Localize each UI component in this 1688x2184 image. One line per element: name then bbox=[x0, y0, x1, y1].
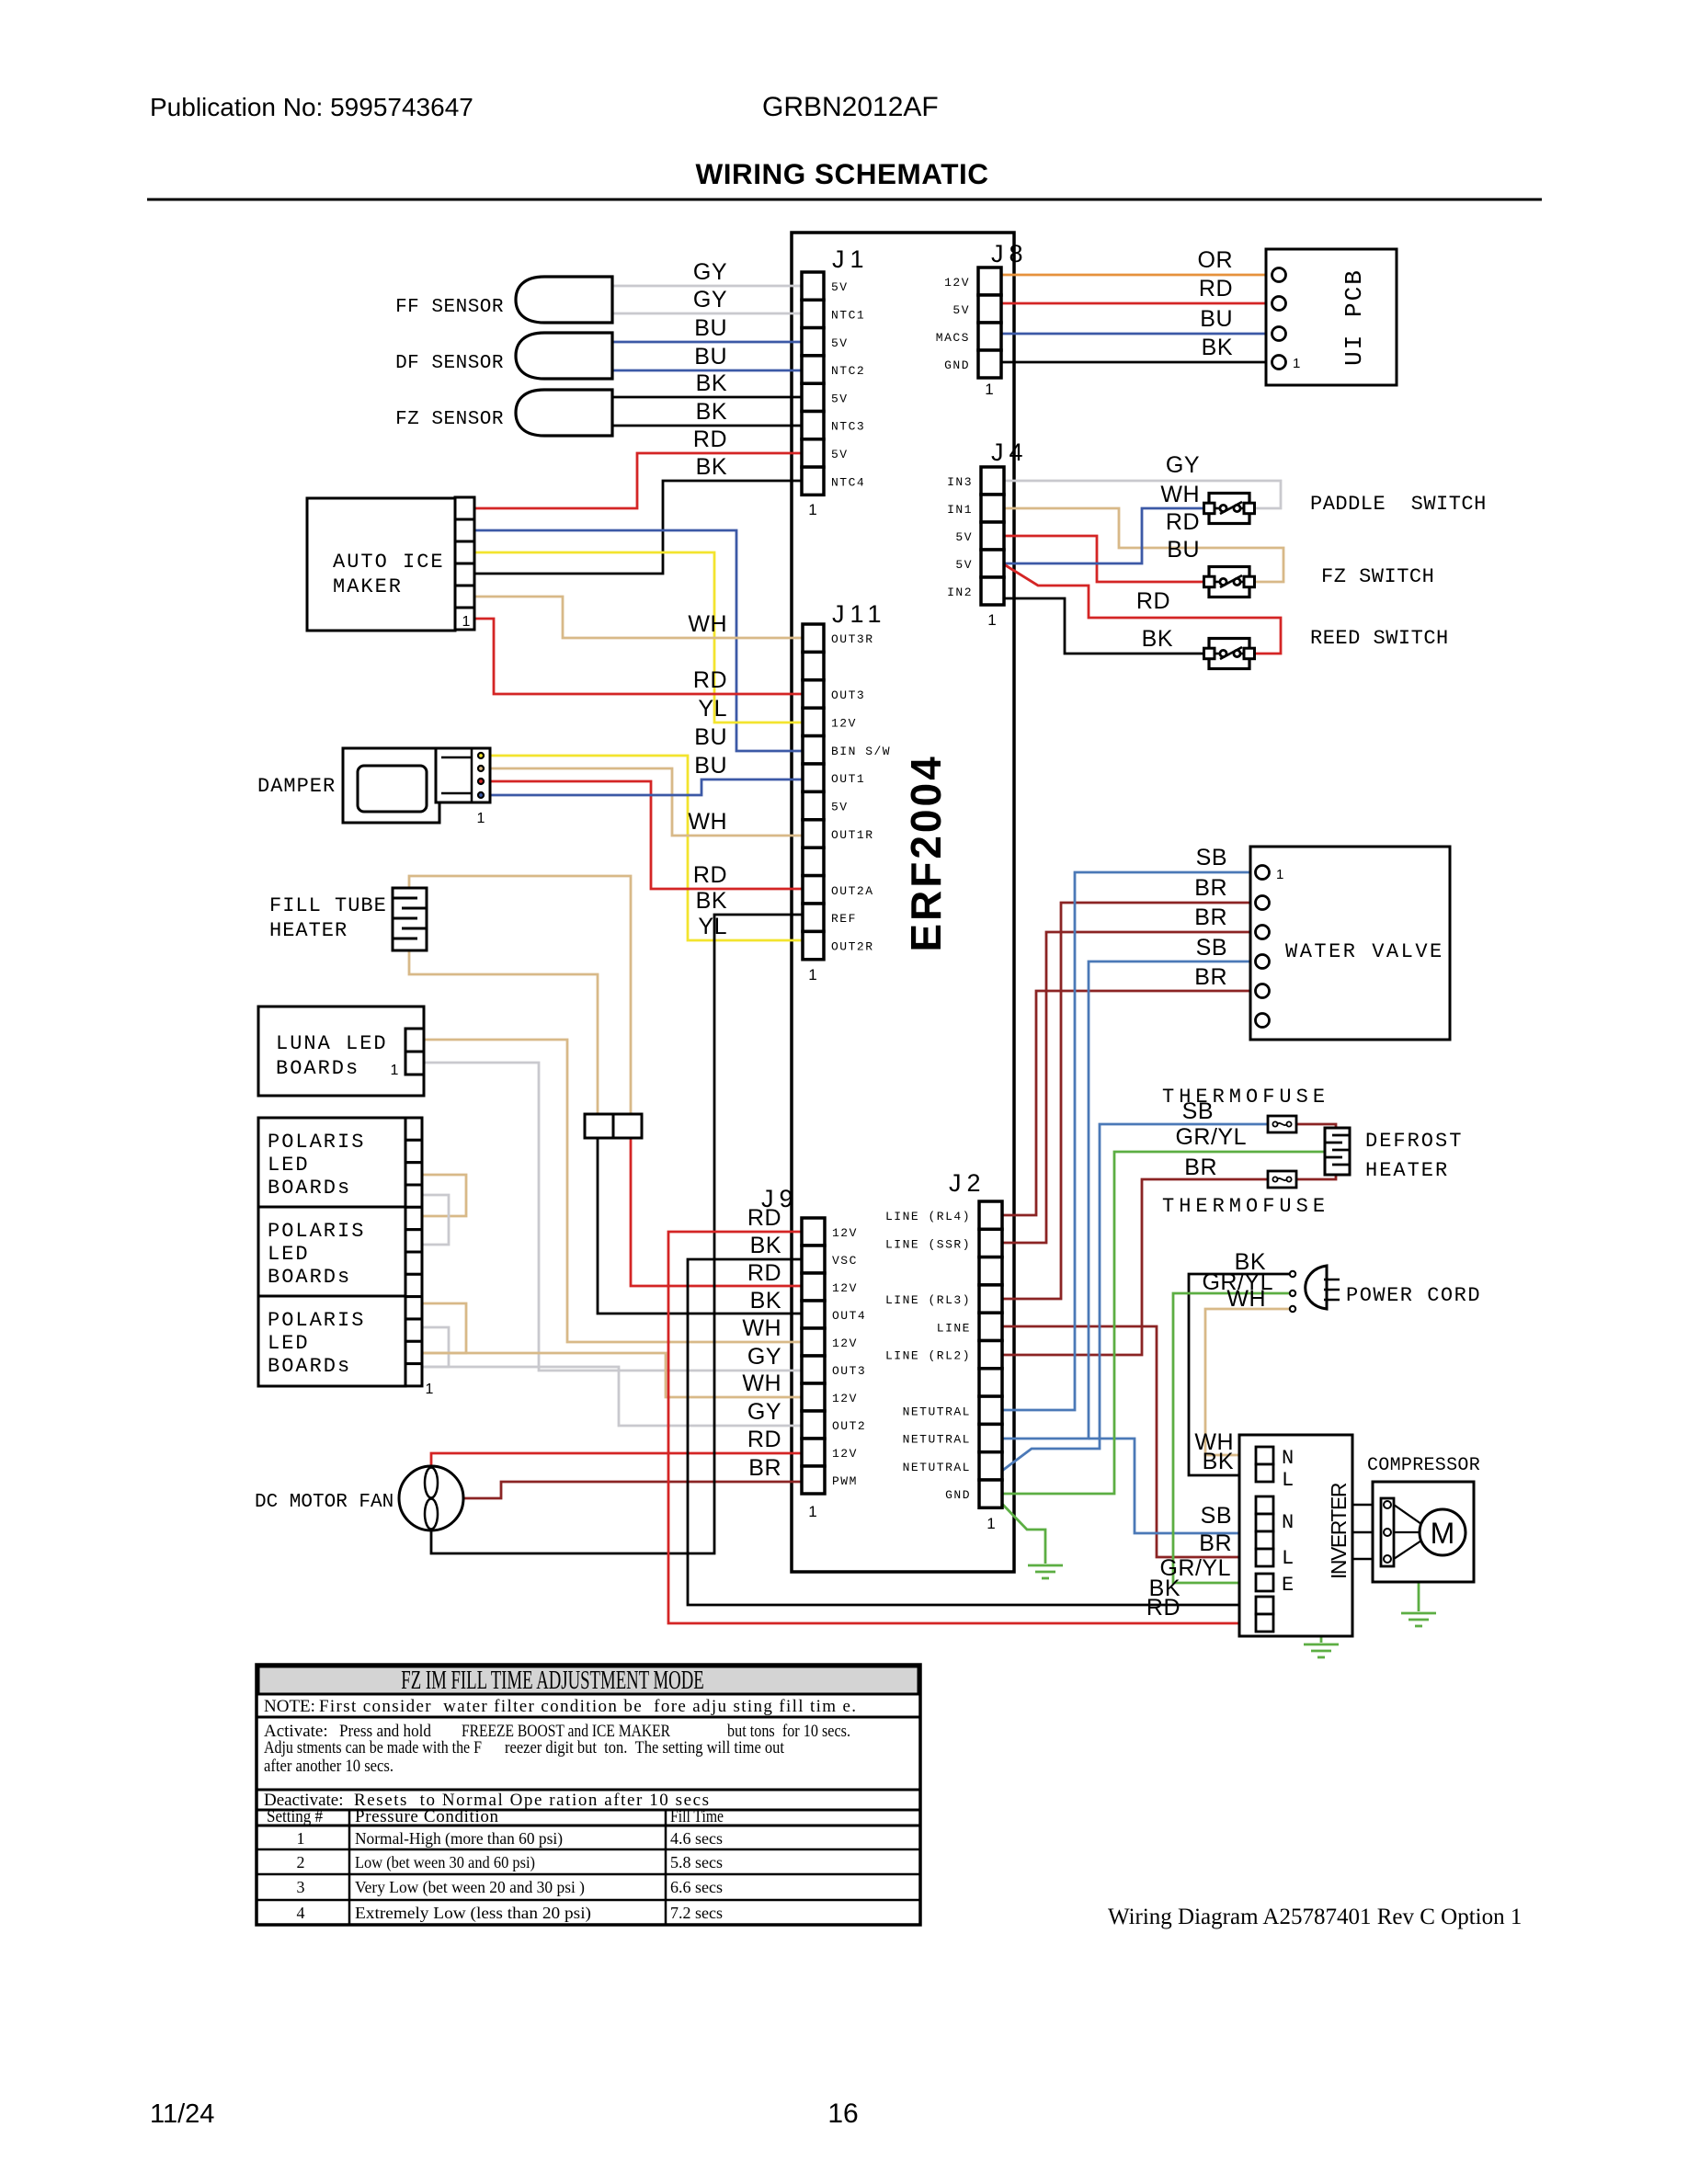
svg-text:NOTE:: NOTE: bbox=[264, 1697, 315, 1716]
svg-text:12V: 12V bbox=[832, 1447, 858, 1461]
wire RD dc motor fan to J9-12V bbox=[431, 1453, 802, 1467]
svg-text:BR: BR bbox=[1194, 875, 1227, 901]
svg-text:BK: BK bbox=[696, 888, 727, 914]
ground symbol at J2 GND bbox=[1028, 1564, 1063, 1567]
inverter terminal group L bbox=[1256, 1549, 1273, 1566]
svg-text:NTC2: NTC2 bbox=[831, 364, 865, 378]
wire WH fill tube heater top to junction connector pin 2 bbox=[409, 876, 631, 1114]
svg-text:POLARIS: POLARIS bbox=[268, 1220, 365, 1243]
svg-text:1: 1 bbox=[985, 381, 993, 398]
svg-text:7.2 secs: 7.2 secs bbox=[670, 1904, 723, 1922]
wire BU damper pin 4 to J11-OUT1 bbox=[484, 779, 803, 795]
svg-text:M: M bbox=[1431, 1517, 1455, 1550]
svg-text:5V: 5V bbox=[952, 303, 970, 317]
svg-text:N: N bbox=[1282, 1447, 1294, 1470]
svg-text:FF SENSOR: FF SENSOR bbox=[395, 297, 504, 318]
connector J2 pin boxes bbox=[979, 1201, 1002, 1229]
svg-text:BU: BU bbox=[694, 753, 727, 779]
svg-text:OUT3R: OUT3R bbox=[831, 632, 874, 646]
power cord terminal WH bbox=[1290, 1306, 1295, 1312]
svg-text:12V: 12V bbox=[831, 716, 857, 730]
svg-text:OUT3: OUT3 bbox=[832, 1364, 866, 1378]
svg-text:5V: 5V bbox=[831, 448, 849, 461]
dc motor fan blade bottom bbox=[425, 1499, 438, 1530]
compressor terminal circles bbox=[1384, 1501, 1391, 1508]
svg-text:WH: WH bbox=[1226, 1286, 1266, 1312]
wire SB J2-NETUTRAL branch to inverter N terminal bbox=[1089, 1439, 1256, 1533]
svg-text:AUTO ICE: AUTO ICE bbox=[333, 551, 445, 574]
wire BU J8-MACS to UI PCB pin 3 bbox=[1001, 333, 1272, 336]
svg-text:OUT1: OUT1 bbox=[831, 772, 865, 786]
reed switch contact circles bbox=[1215, 653, 1220, 655]
svg-text:BR: BR bbox=[1194, 964, 1227, 990]
svg-text:MAKER: MAKER bbox=[333, 575, 403, 598]
luna led connector pins bbox=[405, 1029, 424, 1052]
wire WH polaris board 2 to polaris board 3 link bbox=[422, 1303, 466, 1353]
wire BK dc motor fan bottom to J11-REF bbox=[431, 915, 803, 1553]
svg-text:16: 16 bbox=[827, 2099, 858, 2129]
connector J1 pin boxes bbox=[802, 272, 824, 300]
svg-text:Normal-High (more than 60 psi): Normal-High (more than 60 psi) bbox=[355, 1829, 563, 1848]
fz switch right terminal bbox=[1244, 576, 1255, 587]
svg-text:POWER CORD: POWER CORD bbox=[1346, 1284, 1481, 1307]
inverter terminal N top bbox=[1256, 1447, 1273, 1464]
main control board ERF2004 outline bbox=[792, 233, 1014, 1572]
fz im fill time adjustment mode table bbox=[257, 1665, 920, 1925]
svg-text:REED SWITCH: REED SWITCH bbox=[1310, 627, 1449, 650]
dc motor fan blade top bbox=[425, 1468, 438, 1498]
svg-text:1: 1 bbox=[462, 614, 471, 630]
svg-text:YL: YL bbox=[698, 914, 727, 939]
svg-text:LED: LED bbox=[268, 1154, 310, 1177]
svg-text:RD: RD bbox=[747, 1205, 781, 1231]
svg-text:BOARDs: BOARDs bbox=[276, 1057, 359, 1080]
water valve pin 6 circle bbox=[1256, 1014, 1270, 1028]
wire SB J2-NETUTRAL to water valve pin 1 bbox=[1002, 872, 1256, 1410]
UI PCB pin 2 circle bbox=[1272, 297, 1286, 311]
svg-text:POLARIS: POLARIS bbox=[268, 1131, 365, 1154]
water valve pin 2 circle bbox=[1256, 896, 1270, 910]
luna led boards body bbox=[258, 1007, 424, 1096]
svg-text:DAMPER: DAMPER bbox=[257, 775, 336, 798]
svg-text:NETUTRAL: NETUTRAL bbox=[903, 1405, 971, 1418]
svg-text:FZ SENSOR: FZ SENSOR bbox=[395, 409, 504, 430]
svg-text:GND: GND bbox=[944, 358, 970, 372]
auto ice maker body bbox=[307, 498, 455, 631]
svg-text:Pressure Condition: Pressure Condition bbox=[355, 1807, 499, 1826]
svg-text:GY: GY bbox=[1166, 452, 1200, 478]
table note row bbox=[257, 1693, 920, 1696]
table column dividers bbox=[348, 1810, 351, 1925]
svg-text:after another 10 secs.: after another 10 secs. bbox=[264, 1757, 393, 1776]
wire WH polaris board 1 to polaris board 2 link bbox=[422, 1175, 466, 1216]
svg-text:1: 1 bbox=[1276, 867, 1283, 882]
reed switch body bbox=[1209, 639, 1249, 669]
svg-text:DC MOTOR FAN: DC MOTOR FAN bbox=[255, 1492, 393, 1513]
damper connector pin 3 red bbox=[478, 779, 484, 784]
svg-text:WH: WH bbox=[688, 611, 727, 637]
svg-text:OUT4: OUT4 bbox=[832, 1309, 866, 1323]
power cord prongs bbox=[1324, 1279, 1340, 1281]
svg-text:12V: 12V bbox=[832, 1392, 858, 1405]
wire GR/YL compressor to chassis ground bbox=[1418, 1582, 1420, 1611]
ground symbol at compressor bbox=[1401, 1612, 1436, 1615]
wire WH damper pin 2 to J11-OUT1R bbox=[484, 768, 803, 836]
wire inverter to compressor terminal 3 bbox=[1352, 1558, 1382, 1561]
water valve body bbox=[1250, 847, 1450, 1040]
svg-text:5V: 5V bbox=[955, 558, 973, 572]
svg-text:OUT2: OUT2 bbox=[832, 1419, 866, 1433]
svg-text:GY: GY bbox=[693, 259, 727, 285]
svg-text:BOARDs: BOARDs bbox=[268, 1355, 351, 1378]
svg-text:YL: YL bbox=[698, 696, 727, 722]
svg-text:REF: REF bbox=[831, 912, 857, 926]
paddle switch left terminal bbox=[1204, 503, 1215, 514]
svg-text:BIN S/W: BIN S/W bbox=[831, 745, 891, 758]
svg-text:RD: RD bbox=[1146, 1595, 1180, 1621]
wire GR/YL power cord to inverter E terminal bbox=[1173, 1293, 1293, 1583]
svg-text:DEFROST: DEFROST bbox=[1365, 1130, 1463, 1153]
inverter terminal group N bbox=[1256, 1496, 1273, 1514]
svg-text:reezer digit but ton. The se: reezer digit but ton. The setting will t… bbox=[505, 1738, 785, 1757]
svg-text:RD: RD bbox=[693, 427, 727, 452]
wire RD junction connector pin 2 to J9-12V bbox=[631, 1138, 802, 1286]
wire RD J8-5V to UI PCB pin 2 bbox=[1001, 302, 1272, 305]
wire BR J2-LINE(SSR) to water valve pin 3 bbox=[1002, 932, 1256, 1243]
svg-text:HEATER: HEATER bbox=[1365, 1159, 1449, 1182]
UI PCB body bbox=[1266, 249, 1397, 385]
svg-text:BR: BR bbox=[748, 1455, 781, 1481]
svg-text:GY: GY bbox=[693, 287, 727, 313]
svg-text:12V: 12V bbox=[944, 276, 970, 290]
svg-text:BR: BR bbox=[1199, 1530, 1232, 1556]
wire GR/YL inverter E terminal to chassis ground bbox=[1273, 1583, 1321, 1643]
wire WH polaris board 3 to J9-12V bbox=[422, 1353, 802, 1397]
reed switch right terminal bbox=[1244, 648, 1255, 659]
svg-text:RD: RD bbox=[1166, 509, 1200, 535]
svg-text:BU: BU bbox=[1167, 537, 1200, 563]
svg-text:5V: 5V bbox=[831, 336, 849, 350]
svg-text:1: 1 bbox=[426, 1382, 434, 1397]
svg-text:5V: 5V bbox=[831, 392, 849, 405]
svg-text:FZ SWITCH: FZ SWITCH bbox=[1321, 565, 1434, 588]
wire BK J9-VSC to inverter BK terminal bbox=[688, 1259, 1256, 1605]
wire BR J2-LINE(RL3) to water valve pin 2 bbox=[1002, 903, 1256, 1299]
svg-text:GND: GND bbox=[945, 1488, 971, 1502]
svg-text:BU: BU bbox=[694, 315, 727, 341]
wire GY polaris board 2 to polaris board 3 link bbox=[422, 1327, 449, 1367]
wire BR dc motor fan to J9-PWM bbox=[463, 1482, 802, 1498]
inverter terminal E bbox=[1256, 1574, 1273, 1591]
wire BR J2-LINE(RL4) to water valve pin 5 bbox=[1002, 991, 1256, 1215]
thermofuse 1 element bbox=[1272, 1121, 1277, 1126]
svg-text:RD: RD bbox=[693, 862, 727, 888]
svg-text:VSC: VSC bbox=[832, 1254, 858, 1268]
wire BR thermofuse 1 to defrost heater top bbox=[1296, 1124, 1336, 1130]
svg-text:5V: 5V bbox=[831, 280, 849, 294]
svg-text:1: 1 bbox=[391, 1063, 399, 1078]
title rule line bbox=[147, 199, 1542, 201]
svg-text:1: 1 bbox=[808, 501, 816, 518]
svg-text:BR: BR bbox=[1184, 1155, 1217, 1180]
wire BK J4-IN2 to reed switch bbox=[1004, 598, 1204, 654]
wire WH J4-IN1 to fz switch bbox=[1004, 508, 1283, 582]
wire RD J1-5V to auto ice maker pin 1 bbox=[471, 453, 802, 508]
paddle switch actuator lever bbox=[1220, 502, 1242, 514]
inverter terminal BK bottom bbox=[1256, 1597, 1273, 1614]
svg-text:Extremely Low (less than 20 ps: Extremely Low (less than 20 psi) bbox=[355, 1904, 591, 1923]
svg-text:Low (bet ween 30 and 60 psi): Low (bet ween 30 and 60 psi) bbox=[355, 1853, 535, 1872]
svg-text:5V: 5V bbox=[831, 801, 849, 814]
reed switch actuator lever bbox=[1220, 647, 1242, 659]
svg-text:6.6 secs: 6.6 secs bbox=[670, 1878, 723, 1896]
svg-text:BK: BK bbox=[696, 454, 727, 480]
wire SB J2-NETUTRAL to thermofuse 1 bbox=[1002, 1124, 1268, 1471]
compressor body bbox=[1373, 1482, 1474, 1582]
thermofuse 1 body bbox=[1268, 1116, 1296, 1132]
power cord terminal BK bbox=[1290, 1271, 1295, 1277]
wire WH power cord to inverter N terminal bbox=[1205, 1309, 1293, 1455]
wire BU auto ice maker pin 2 to J11-BIN S/W bbox=[471, 530, 803, 751]
wire RD auto ice maker pin 6 to J11-OUT3 bbox=[471, 619, 803, 694]
svg-text:NTC4: NTC4 bbox=[831, 475, 865, 489]
svg-text:1: 1 bbox=[987, 1515, 995, 1532]
polaris led connector pins bbox=[405, 1118, 422, 1140]
svg-text:5.8 secs: 5.8 secs bbox=[670, 1853, 723, 1871]
svg-text:RD: RD bbox=[693, 667, 727, 693]
wire BU DF sensor pin A to J1-5V bbox=[612, 341, 802, 344]
svg-text:4.6 secs: 4.6 secs bbox=[670, 1829, 723, 1848]
svg-text:1: 1 bbox=[987, 611, 996, 629]
svg-text:IN1: IN1 bbox=[947, 503, 973, 517]
svg-text:3: 3 bbox=[297, 1878, 305, 1896]
wire RD J4-5V to reed switch bbox=[1004, 564, 1281, 654]
svg-text:IN2: IN2 bbox=[947, 586, 973, 599]
reed switch left terminal bbox=[1204, 648, 1215, 659]
connector J9 pin boxes bbox=[802, 1218, 825, 1246]
svg-text:BK: BK bbox=[696, 370, 727, 396]
paddle switch right terminal bbox=[1244, 503, 1255, 514]
compressor terminal strip bbox=[1381, 1498, 1394, 1566]
svg-text:DF SENSOR: DF SENSOR bbox=[395, 353, 504, 374]
fz switch left terminal bbox=[1204, 576, 1215, 587]
wire YL auto ice maker pin 3 to J11-12V bbox=[471, 552, 803, 722]
svg-text:BK: BK bbox=[1142, 626, 1173, 652]
svg-text:J8: J8 bbox=[991, 240, 1029, 267]
wire GY FF sensor pin B to J1-NTC1 bbox=[612, 313, 802, 315]
fz switch actuator lever bbox=[1220, 575, 1242, 587]
water valve pin 5 circle bbox=[1256, 984, 1270, 998]
svg-text:THERMOFUSE: THERMOFUSE bbox=[1162, 1195, 1329, 1218]
svg-text:N: N bbox=[1282, 1511, 1294, 1534]
wire BR J2-LINE(RL2) to thermofuse 2 bbox=[1002, 1179, 1268, 1355]
connector J4 pin boxes bbox=[981, 467, 1004, 495]
svg-text:NETUTRAL: NETUTRAL bbox=[903, 1461, 971, 1474]
svg-text:NTC3: NTC3 bbox=[831, 420, 865, 434]
dc motor fan body bbox=[399, 1466, 463, 1530]
compressor motor circle M bbox=[1420, 1509, 1466, 1555]
svg-text:First consider water filter c: First consider water filter condition be… bbox=[319, 1697, 856, 1716]
svg-text:BK: BK bbox=[1203, 1449, 1234, 1474]
damper inner window bbox=[358, 766, 427, 812]
svg-text:LUNA LED: LUNA LED bbox=[276, 1032, 388, 1055]
svg-text:1: 1 bbox=[1293, 356, 1300, 371]
wire BK junction connector pin 1 to J9-OUT4 bbox=[598, 1138, 802, 1314]
svg-text:WH: WH bbox=[688, 809, 727, 835]
svg-text:HEATER: HEATER bbox=[269, 919, 348, 942]
svg-text:MACS: MACS bbox=[936, 331, 970, 345]
fill tube heater element bbox=[393, 888, 427, 950]
wire RD J4-5V to fz switch bbox=[1004, 536, 1204, 582]
svg-text:OR: OR bbox=[1198, 247, 1234, 273]
svg-text:J1: J1 bbox=[832, 245, 870, 273]
svg-text:OUT1R: OUT1R bbox=[831, 828, 874, 842]
svg-text:PWM: PWM bbox=[832, 1474, 858, 1488]
svg-text:12V: 12V bbox=[832, 1337, 858, 1350]
wire RD J9-12V to inverter RD terminal bbox=[668, 1232, 1256, 1623]
svg-text:L: L bbox=[1282, 1469, 1294, 1492]
svg-text:2: 2 bbox=[297, 1853, 305, 1871]
wire BK FZ sensor pin B to J1-NTC3 bbox=[612, 425, 802, 427]
svg-text:ERF2004: ERF2004 bbox=[902, 754, 950, 951]
svg-text:BOARDs: BOARDs bbox=[268, 1177, 351, 1200]
svg-text:RD: RD bbox=[747, 1260, 781, 1286]
compressor motor windings bbox=[1394, 1505, 1421, 1524]
FF sensor body bbox=[516, 277, 612, 323]
svg-text:BU: BU bbox=[694, 724, 727, 750]
damper connector pin 1 yellow bbox=[478, 753, 484, 758]
svg-text:BK: BK bbox=[750, 1233, 781, 1258]
wire BU DF sensor pin B to J1-NTC2 bbox=[612, 370, 802, 372]
svg-text:1: 1 bbox=[808, 966, 816, 984]
junction connector body bbox=[585, 1114, 613, 1138]
svg-text:SB: SB bbox=[1196, 845, 1227, 870]
svg-text:WATER VALVE: WATER VALVE bbox=[1285, 940, 1444, 963]
paddle switch contact circles bbox=[1215, 507, 1220, 510]
wire RD damper pin 3 to J11-OUT2A bbox=[484, 781, 803, 889]
power cord terminal GR/YL bbox=[1290, 1291, 1295, 1296]
svg-text:COMPRESSOR: COMPRESSOR bbox=[1367, 1455, 1480, 1476]
svg-text:LED: LED bbox=[268, 1243, 310, 1266]
svg-text:GY: GY bbox=[747, 1399, 781, 1425]
wire inverter to compressor terminal 1 bbox=[1352, 1504, 1382, 1507]
svg-text:NTC1: NTC1 bbox=[831, 308, 865, 322]
svg-text:GR/YL: GR/YL bbox=[1175, 1124, 1247, 1150]
svg-text:SB: SB bbox=[1196, 935, 1227, 961]
svg-text:FILL TUBE: FILL TUBE bbox=[269, 894, 387, 917]
svg-text:WH: WH bbox=[1160, 482, 1200, 507]
svg-text:POLARIS: POLARIS bbox=[268, 1309, 365, 1332]
wire GY polaris board 1 to polaris board 2 link bbox=[422, 1195, 449, 1245]
paddle switch body bbox=[1209, 494, 1249, 524]
svg-text:LINE: LINE bbox=[937, 1321, 971, 1335]
damper connector bbox=[436, 748, 490, 802]
wire BR thermofuse 2 to defrost heater bottom bbox=[1296, 1173, 1336, 1179]
svg-text:5V: 5V bbox=[955, 530, 973, 544]
svg-text:Wiring Diagram A25787401 Rev C: Wiring Diagram A25787401 Rev C Option 1 bbox=[1108, 1905, 1522, 1929]
svg-text:1: 1 bbox=[297, 1829, 305, 1848]
polaris led boards divider 1 bbox=[258, 1206, 405, 1209]
fz switch body bbox=[1209, 567, 1249, 597]
svg-text:Setting #: Setting # bbox=[267, 1807, 323, 1826]
wire BR J2-LINE to inverter L terminal bbox=[1002, 1326, 1256, 1557]
polaris led boards stack body bbox=[258, 1118, 405, 1386]
damper body bbox=[343, 748, 439, 823]
inverter terminal L top bbox=[1256, 1464, 1273, 1482]
svg-text:LINE (RL4): LINE (RL4) bbox=[885, 1210, 971, 1223]
svg-text:GRBN2012AF: GRBN2012AF bbox=[762, 92, 939, 122]
UI PCB pin 1 circle bbox=[1272, 268, 1286, 282]
connector J8 pin boxes bbox=[978, 267, 1001, 295]
svg-text:BOARDs: BOARDs bbox=[268, 1266, 351, 1289]
DF sensor body bbox=[516, 333, 612, 379]
svg-text:LINE (RL2): LINE (RL2) bbox=[885, 1349, 971, 1363]
svg-text:SB: SB bbox=[1201, 1503, 1232, 1529]
wire BU J4-5V to paddle switch bbox=[1004, 508, 1204, 563]
wire SB J2-NETUTRAL to water valve pin 4 bbox=[1002, 961, 1256, 1439]
svg-text:LED: LED bbox=[268, 1332, 310, 1355]
svg-text:OUT3: OUT3 bbox=[831, 688, 865, 702]
svg-text:J4: J4 bbox=[991, 438, 1029, 466]
wire inverter to compressor terminal 2 bbox=[1352, 1531, 1382, 1534]
water valve pin 1 circle bbox=[1256, 866, 1270, 880]
svg-text:PADDLE SWITCH: PADDLE SWITCH bbox=[1310, 493, 1487, 516]
ground symbol at inverter E bbox=[1304, 1644, 1339, 1646]
svg-text:E: E bbox=[1282, 1574, 1294, 1597]
auto ice maker connector pins bbox=[455, 497, 474, 519]
svg-text:GY: GY bbox=[747, 1344, 781, 1370]
svg-text:1: 1 bbox=[477, 811, 485, 826]
svg-text:BK: BK bbox=[750, 1288, 781, 1314]
svg-text:FZ IM FILL TIME ADJUSTMENT MOD: FZ IM FILL TIME ADJUSTMENT MODE bbox=[401, 1667, 703, 1696]
fz switch contact circles bbox=[1215, 581, 1220, 584]
svg-text:LINE (RL3): LINE (RL3) bbox=[885, 1293, 971, 1307]
svg-text:WIRING SCHEMATIC: WIRING SCHEMATIC bbox=[696, 157, 989, 190]
svg-text:Fill Time: Fill Time bbox=[670, 1807, 724, 1826]
wire GY polaris board 3 to J9-OUT2 bbox=[422, 1367, 802, 1426]
svg-text:Very Low (bet ween 20 and 30 p: Very Low (bet ween 20 and 30 psi ) bbox=[355, 1878, 585, 1897]
svg-text:BK: BK bbox=[1202, 335, 1233, 360]
svg-text:LINE (SSR): LINE (SSR) bbox=[885, 1237, 971, 1251]
svg-text:12V: 12V bbox=[832, 1226, 858, 1240]
svg-text:12V: 12V bbox=[832, 1281, 858, 1295]
svg-text:4: 4 bbox=[297, 1904, 305, 1922]
wire GY luna led pin 2 to J9-OUT3 bbox=[424, 1063, 802, 1371]
wire GY J4-IN3 to paddle switch bbox=[1004, 481, 1281, 508]
wire BK power cord to inverter L terminal bbox=[1189, 1274, 1293, 1475]
svg-text:BU: BU bbox=[694, 344, 727, 370]
wire OR J8-12V to UI PCB pin 1 bbox=[1001, 274, 1272, 277]
svg-text:OUT2R: OUT2R bbox=[831, 940, 874, 954]
water valve pin 4 circle bbox=[1256, 955, 1270, 969]
svg-text:1: 1 bbox=[808, 1503, 816, 1520]
svg-text:BR: BR bbox=[1194, 904, 1227, 930]
svg-text:RD: RD bbox=[1199, 276, 1233, 301]
wire BK J8-GND to UI PCB pin 4 bbox=[1001, 361, 1272, 364]
wire WH auto ice maker pin 5 to J11-OUT3R bbox=[471, 597, 803, 638]
svg-text:IN3: IN3 bbox=[947, 475, 973, 489]
svg-text:J11: J11 bbox=[832, 600, 887, 628]
inverter terminal RD bottom bbox=[1256, 1614, 1273, 1632]
svg-text:INVERTER: INVERTER bbox=[1327, 1483, 1351, 1579]
svg-text:BU: BU bbox=[1200, 306, 1233, 332]
svg-text:Publication No: 5995743647: Publication No: 5995743647 bbox=[150, 93, 473, 121]
svg-text:WH: WH bbox=[742, 1371, 781, 1396]
wire GR/YL J2-GND to defrost heater bbox=[1002, 1152, 1325, 1494]
svg-text:11/24: 11/24 bbox=[150, 2099, 214, 2129]
UI PCB pin 3 circle bbox=[1272, 327, 1286, 341]
wire YL damper pin 1 to J11-OUT2R bbox=[484, 756, 803, 940]
